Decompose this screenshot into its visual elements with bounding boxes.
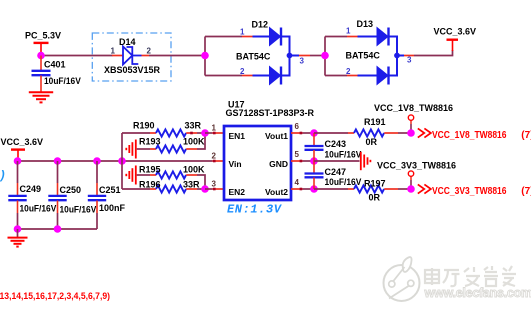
junction node EN1	[201, 129, 209, 137]
wire VCC_3.6V rail to U17 pin2	[18, 160, 213, 162]
wire D13 pin3 to VCC_3.6V	[397, 50, 453, 56]
svg-text:C249: C249	[20, 184, 42, 194]
svg-text:C251: C251	[99, 185, 121, 195]
svg-text:(7): (7)	[521, 186, 531, 197]
port VCC_1V8_TW8816	[374, 103, 531, 141]
svg-text:2: 2	[147, 47, 152, 56]
svg-text:1: 1	[346, 27, 351, 36]
svg-text:VCC_1V8_TW8816: VCC_1V8_TW8816	[374, 103, 453, 113]
junction node rail at C251	[93, 157, 101, 165]
svg-text:100K: 100K	[183, 137, 205, 147]
junction node bottom rail mid	[54, 225, 62, 233]
svg-text:2: 2	[212, 152, 217, 161]
wire resistor network vertical	[121, 133, 123, 189]
svg-text:Vin: Vin	[229, 159, 242, 169]
U17 pin5 stub	[291, 150, 314, 162]
svg-text:33R: 33R	[185, 121, 202, 131]
U17 pin1 stub	[205, 124, 224, 135]
svg-text:VCC_3V3_TW8816: VCC_3V3_TW8816	[377, 161, 456, 171]
node fragment cyan parenthesis	[0, 169, 6, 183]
svg-text:5: 5	[295, 150, 300, 159]
resistor R193 100K	[137, 133, 205, 153]
svg-text:13,14,15,16,17,2,3,4,5,6,7,9): 13,14,15,16,17,2,3,4,5,6,7,9)	[0, 291, 110, 301]
junction node at D12 input	[201, 52, 209, 60]
svg-text:2: 2	[346, 67, 351, 76]
svg-text:C243: C243	[325, 139, 347, 149]
junction node Vout2	[310, 185, 318, 193]
capacitor C247	[305, 161, 362, 189]
svg-text:D14: D14	[119, 37, 136, 47]
junction node at D12 output	[287, 53, 293, 59]
svg-text:BAT54C: BAT54C	[236, 52, 271, 62]
wire bottom rail	[18, 228, 98, 230]
wire D12 pin3 to D13	[290, 55, 326, 57]
junction node bottom rail left	[14, 225, 22, 233]
resistor R195 100K	[137, 164, 205, 189]
svg-text:100K: 100K	[183, 164, 205, 174]
svg-text:3: 3	[300, 57, 305, 66]
svg-text:Vout1: Vout1	[265, 131, 288, 141]
resistor R196 33R	[122, 180, 205, 193]
ground below bottom rail	[8, 229, 28, 247]
junction node VCC_3V3	[407, 185, 415, 193]
svg-text:R197: R197	[364, 178, 386, 188]
svg-text:EN2: EN2	[229, 187, 246, 197]
svg-text:10uF/16V: 10uF/16V	[325, 150, 362, 160]
svg-text:R190: R190	[133, 121, 155, 131]
wire PC_5.3V to D14	[41, 55, 113, 57]
capacitor C251	[88, 161, 126, 229]
junction node GND	[310, 157, 318, 165]
svg-text:Vout2: Vout2	[265, 187, 288, 197]
ground at R193	[126, 140, 136, 159]
wire D14 to D12	[149, 55, 205, 57]
svg-text:4: 4	[295, 178, 300, 187]
svg-text:3: 3	[407, 56, 412, 65]
capacitor C401	[32, 56, 81, 92]
svg-text:VCC_3.6V: VCC_3.6V	[1, 137, 44, 147]
junction node rail at C249	[14, 157, 22, 165]
svg-text:0R: 0R	[369, 193, 381, 203]
watermark text	[425, 266, 516, 286]
svg-text:EN1: EN1	[229, 131, 246, 141]
svg-text:C250: C250	[60, 185, 82, 195]
junction node at D13 output	[394, 53, 400, 59]
dashed variant box around D14	[92, 33, 171, 81]
svg-text:6: 6	[295, 122, 300, 131]
svg-text:R196: R196	[139, 180, 161, 190]
svg-text:GS7128ST-1P83P3-R: GS7128ST-1P83P3-R	[226, 108, 315, 118]
svg-text:10uF/16V: 10uF/16V	[20, 204, 57, 214]
svg-text:EN:1.3V: EN:1.3V	[227, 203, 283, 217]
ground at U17 pin5	[361, 152, 371, 170]
power flag VCC_3.6V right	[434, 27, 477, 52]
svg-text:10uF/16V: 10uF/16V	[60, 205, 97, 215]
svg-text:D13: D13	[357, 19, 374, 29]
svg-text:C247: C247	[325, 167, 347, 177]
power flag VCC_3.6V left	[1, 137, 44, 161]
svg-text:1: 1	[212, 124, 217, 133]
svg-text:1: 1	[111, 47, 116, 56]
svg-text:(7): (7)	[521, 130, 531, 141]
U17 pin4 stub	[291, 178, 314, 190]
capacitor C249	[8, 161, 56, 229]
svg-text:R193: R193	[139, 137, 161, 147]
U17 pin3 stub	[205, 180, 224, 191]
svg-text:2: 2	[240, 67, 245, 76]
svg-text:100nF: 100nF	[99, 203, 126, 213]
svg-text:VCC_1V8_TW8816: VCC_1V8_TW8816	[432, 129, 507, 141]
port VCC_3V3_TW8816	[377, 161, 531, 198]
junction node at D13 input	[321, 52, 329, 60]
svg-text:GND: GND	[269, 159, 288, 169]
svg-text:www.elecfans.com: www.elecfans.com	[424, 286, 531, 300]
ground at R195	[126, 166, 136, 185]
op-amp regulator U17 GS7128ST-1P83P3-R	[224, 100, 315, 201]
svg-text:1: 1	[240, 28, 245, 37]
junction node VCC_1V8	[407, 129, 415, 137]
power flag PC_5.3V	[25, 31, 61, 56]
svg-text:3: 3	[212, 180, 217, 189]
svg-text:XBS053V15R: XBS053V15R	[104, 65, 161, 75]
junction node rail at C250	[54, 157, 62, 165]
resistor R197 0R	[314, 178, 411, 202]
junction node rail at resistor network	[118, 157, 126, 165]
svg-text:33R: 33R	[183, 180, 200, 190]
resistor R190 33R	[122, 121, 205, 137]
svg-text:C401: C401	[44, 60, 66, 70]
watermark logo	[384, 257, 420, 301]
svg-text:BAT54C: BAT54C	[346, 51, 381, 61]
svg-text:R195: R195	[139, 164, 161, 174]
U17 pin2 stub	[212, 152, 225, 163]
junction node Vout1	[310, 129, 318, 137]
svg-text:0R: 0R	[366, 137, 378, 147]
diode D12 BAT54C	[205, 20, 305, 85]
svg-text:D12: D12	[252, 20, 269, 30]
svg-text:): )	[0, 169, 6, 183]
node sheet reference list	[0, 291, 110, 301]
wire GND pin5 to ground	[314, 160, 360, 162]
capacitor C243	[305, 133, 362, 161]
U17 pin6 stub	[291, 122, 314, 134]
svg-text:PC_5.3V: PC_5.3V	[25, 31, 61, 41]
svg-text:R191: R191	[364, 117, 386, 127]
capacitor C250	[48, 161, 96, 229]
svg-text:VCC_3V3_TW8816: VCC_3V3_TW8816	[432, 185, 507, 197]
diode D13 BAT54C	[325, 19, 412, 85]
junction node at PC_5.3V	[37, 52, 45, 60]
svg-text:10uF/16V: 10uF/16V	[44, 76, 81, 86]
EN:1.3V note	[227, 203, 283, 217]
resistor R191 0R	[314, 117, 411, 147]
svg-text:VCC_3.6V: VCC_3.6V	[434, 27, 477, 37]
diode D14 XBS053V15R	[104, 37, 161, 75]
junction node EN2	[201, 185, 209, 193]
ground below C401	[29, 92, 53, 102]
